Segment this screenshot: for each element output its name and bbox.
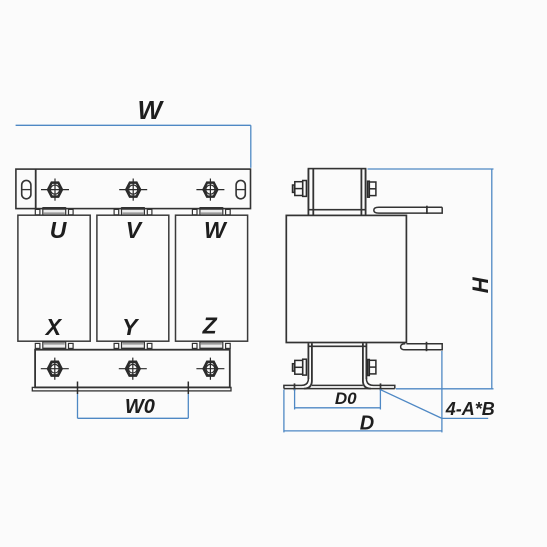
bottom terminal bracket xyxy=(401,342,443,351)
svg-text:D0: D0 xyxy=(335,389,357,408)
bottom clamp X xyxy=(35,342,73,350)
dimension D0 xyxy=(295,389,381,409)
svg-text:Z: Z xyxy=(202,312,218,338)
top clamp V xyxy=(114,208,152,215)
bottom terminal block xyxy=(304,343,371,388)
screw terminal Y xyxy=(119,358,147,380)
svg-text:V: V xyxy=(126,217,143,243)
svg-text:W: W xyxy=(204,217,228,243)
bottom mounting bar xyxy=(35,350,230,388)
top terminal bracket xyxy=(374,206,442,214)
bottom block right bolt xyxy=(368,360,376,376)
screw terminal Z xyxy=(196,358,224,380)
dimension W0 xyxy=(78,394,189,419)
screw terminal U xyxy=(41,179,69,201)
top bar left divider xyxy=(35,169,37,209)
leader 4-A*B xyxy=(381,390,488,419)
top mounting bar xyxy=(16,169,251,209)
winding coil V/Y xyxy=(97,215,169,341)
svg-text:W: W xyxy=(138,95,165,125)
core body xyxy=(286,215,406,342)
dimension D xyxy=(284,351,442,432)
bottom bar base strip xyxy=(32,387,231,391)
screw terminal V xyxy=(119,179,147,201)
base plate lines xyxy=(284,385,395,388)
top block right bolt xyxy=(368,181,376,197)
bottom clamp Z xyxy=(192,342,230,350)
oval slot right xyxy=(236,180,245,198)
dimension W xyxy=(16,125,251,168)
svg-text:D: D xyxy=(360,413,374,435)
winding coil W/Z xyxy=(176,215,248,341)
top clamp W xyxy=(192,208,230,215)
oval slot left xyxy=(22,180,31,198)
svg-text:X: X xyxy=(44,314,63,340)
screw terminal X xyxy=(41,358,69,380)
top terminal block xyxy=(308,169,365,216)
svg-text:U: U xyxy=(50,217,68,243)
mounting foot left xyxy=(284,378,309,390)
W0 extension ticks xyxy=(78,382,189,395)
svg-text:W0: W0 xyxy=(125,396,155,418)
bottom clamp Y xyxy=(114,342,152,350)
svg-text:4-A*B: 4-A*B xyxy=(445,399,495,419)
bottom block left bolt xyxy=(293,359,307,375)
dimension H xyxy=(368,169,494,389)
top block left bolt xyxy=(293,181,307,197)
svg-text:H: H xyxy=(468,276,493,293)
svg-text:Y: Y xyxy=(122,314,140,340)
mounting foot right xyxy=(366,378,394,390)
winding coil U/X xyxy=(18,215,90,341)
top clamp U xyxy=(35,208,73,215)
screw terminal W xyxy=(196,179,224,201)
